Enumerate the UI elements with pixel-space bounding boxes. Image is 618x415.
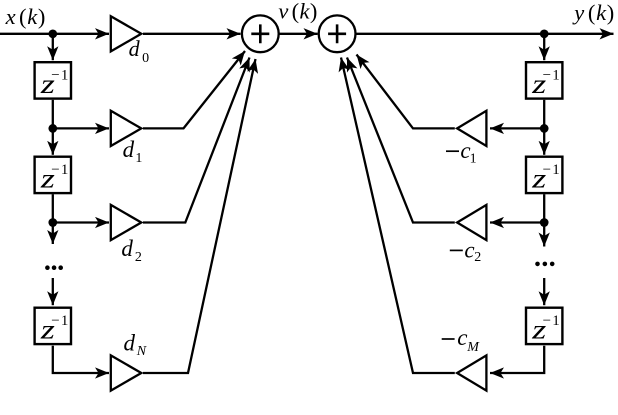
wire: node L3 to gain d2: [53, 221, 109, 223]
wire: gain d2 output to summer S1: [143, 58, 250, 223]
wire: delay R1 to node R2: [543, 100, 545, 129]
svg-text:0: 0: [142, 51, 149, 66]
gain -c2 triangle: [457, 205, 486, 240]
wire: gain d0 output to summer S1: [143, 33, 241, 35]
svg-text:y(k): y(k): [572, 0, 614, 25]
wire: node L2 to gain d1: [53, 127, 109, 129]
wire: node R3 to gain c2: [490, 221, 544, 223]
svg-text:−: −: [543, 313, 551, 329]
label -c1: [446, 150, 459, 152]
svg-text:−: −: [543, 162, 551, 178]
wire: gain d1 output to summer S1: [143, 51, 245, 128]
wire: node R3 down toward ellipsis: [543, 223, 545, 247]
label -cM: [442, 338, 455, 340]
node R2 junction: [540, 124, 549, 133]
svg-text:c: c: [464, 237, 474, 262]
wire: input node down into delay L1: [52, 34, 54, 60]
wire: gain c2 output to summer S2: [347, 58, 455, 223]
node R3 junction: [540, 218, 549, 227]
svg-text:1: 1: [135, 151, 142, 166]
svg-text:M: M: [466, 340, 480, 355]
wire: node R2 to gain c1: [490, 127, 544, 129]
gain d1 triangle: [111, 111, 142, 146]
node: input branch junction: [48, 29, 57, 38]
node L3 junction: [48, 218, 57, 227]
svg-text:d: d: [129, 36, 141, 61]
wire: gain c1 output to summer S2: [357, 55, 455, 129]
delay z^-1 box L2: [35, 157, 71, 193]
gain -cM triangle: [457, 355, 486, 390]
svg-text:c: c: [457, 325, 467, 350]
svg-text:d: d: [124, 330, 136, 355]
wire: input rail x(k) to gain d0: [0, 33, 109, 35]
wire: node L2 down into delay L2: [52, 128, 54, 154]
gain dN triangle: [111, 355, 142, 390]
wire: output node down into delay R1: [543, 34, 545, 60]
summer S1 plus sign: [251, 24, 269, 43]
svg-text:1: 1: [470, 152, 477, 167]
delay z^-1 box R2: [526, 157, 562, 193]
wire: gain dN output to summer S1: [143, 59, 256, 373]
gain d2 triangle: [111, 205, 142, 240]
svg-text:1: 1: [552, 162, 560, 178]
gain d0 triangle: [111, 16, 142, 51]
svg-text:−: −: [51, 313, 59, 329]
wire: ellipsis down into delay L3: [52, 278, 54, 305]
node L2 junction: [48, 124, 57, 133]
wire: node R2 down into delay R2: [543, 128, 545, 154]
wire: output rail S2 to y(k): [356, 33, 613, 35]
node: output branch junction: [540, 29, 549, 38]
summer S2 plus sign: [328, 24, 346, 43]
svg-text:−: −: [51, 68, 59, 84]
wire: delay R3 down and left to gain cM: [490, 346, 544, 373]
wire: delay L3 down and right to gain dN: [53, 346, 109, 373]
wire: gain cM output to summer S2: [341, 58, 455, 374]
svg-text:1: 1: [61, 68, 69, 84]
wire: S1 output to S2: [280, 33, 318, 35]
delay z^-1 box R1: [526, 62, 562, 98]
wire: delay L1 to node L2: [52, 100, 54, 129]
label -c2: [450, 249, 463, 251]
delay z^-1 box R3: [526, 308, 562, 344]
svg-text:2: 2: [474, 250, 481, 265]
wire: delay R2 to node R3: [543, 194, 545, 222]
svg-text:−: −: [543, 68, 551, 84]
wire: delay L2 to node L3: [52, 194, 54, 222]
svg-text:2: 2: [135, 250, 142, 265]
svg-text:1: 1: [552, 68, 560, 84]
svg-text:−: −: [51, 162, 59, 178]
delay z^-1 box L1: [35, 62, 71, 98]
gain -c1 triangle: [457, 111, 486, 146]
summer S1 circle: [242, 15, 279, 52]
wire: ellipsis down into delay R3: [543, 278, 545, 305]
svg-text:d: d: [121, 236, 133, 261]
ellipsis right: [535, 262, 554, 267]
svg-text:v(k): v(k): [278, 0, 317, 24]
ellipsis left: [45, 265, 63, 270]
svg-text:1: 1: [61, 313, 69, 329]
svg-text:d: d: [123, 137, 135, 162]
svg-text:1: 1: [552, 313, 560, 329]
delay z^-1 box L3: [35, 308, 71, 344]
svg-text:1: 1: [61, 162, 69, 178]
svg-text:x(k): x(k): [5, 4, 46, 29]
summer S2 circle: [319, 15, 356, 52]
wire: node L3 down toward ellipsis: [52, 223, 54, 245]
svg-text:N: N: [136, 344, 147, 359]
